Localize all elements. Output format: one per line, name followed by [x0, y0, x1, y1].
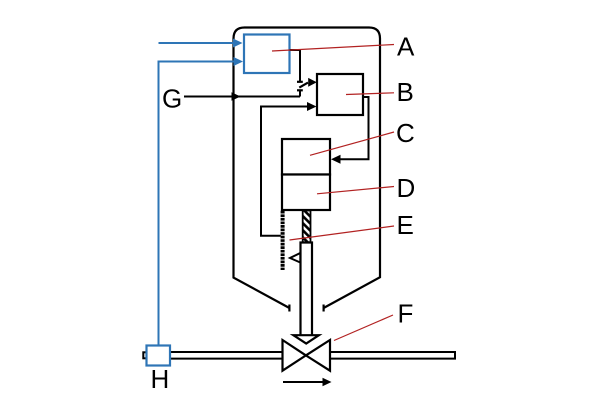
svg-text:B: B	[397, 77, 414, 107]
wire B to C	[340, 97, 369, 159]
stem pointer	[290, 253, 300, 263]
pointer line F	[334, 315, 393, 341]
position scale (dotted line)	[281, 211, 285, 270]
pointer line A	[272, 45, 394, 52]
feedback arrow into B	[307, 102, 317, 111]
enclosure outlet tick right	[323, 305, 325, 312]
enclosure body	[234, 28, 381, 309]
switch arm with arrow into B	[299, 83, 308, 88]
input arrow 1 (blue)	[159, 42, 235, 44]
pointer line B	[346, 93, 394, 95]
pipe left segment	[170, 351, 282, 353]
svg-text:A: A	[397, 32, 415, 62]
pipe right segment	[331, 352, 456, 359]
svg-text:D: D	[397, 173, 416, 203]
pipe stub left of H	[143, 352, 147, 358]
sensor box H	[147, 346, 171, 366]
valve stem	[301, 243, 313, 336]
svg-text:H: H	[151, 364, 170, 394]
svg-text:E: E	[397, 210, 414, 240]
comparator box B	[317, 74, 363, 115]
actuator box C	[282, 139, 330, 175]
flow arrow	[283, 381, 324, 383]
controller box A	[244, 35, 290, 74]
wire A to switch top terminal	[290, 50, 300, 81]
switch bottom terminal tick	[297, 89, 303, 91]
setpoint line G	[184, 96, 300, 98]
enclosure outlet tick left	[288, 305, 290, 312]
svg-text:G: G	[162, 84, 182, 114]
arrow into C	[331, 155, 341, 164]
threaded rod E (hatched)	[303, 211, 311, 243]
svg-text:F: F	[398, 299, 414, 329]
wire G up to switch bottom terminal	[299, 91, 301, 97]
feedback line H to A (blue riser)	[159, 62, 235, 346]
actuator box D	[282, 175, 330, 211]
valve F bowtie	[283, 340, 306, 371]
pointer line D	[317, 187, 394, 194]
pointer line C	[310, 132, 394, 155]
pointer line E	[290, 226, 395, 240]
switch top terminal tick	[297, 81, 303, 83]
svg-text:C: C	[396, 118, 415, 148]
hollow arrow head to valve	[293, 335, 319, 343]
feedback loop wire	[261, 107, 308, 236]
